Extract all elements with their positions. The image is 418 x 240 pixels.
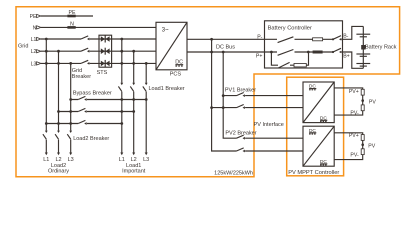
fuse battery P- xyxy=(313,38,323,41)
breaker precharge xyxy=(279,62,290,68)
svg-text:PV MPPT Controller: PV MPPT Controller xyxy=(288,170,339,176)
wire PE xyxy=(41,15,93,17)
DC/DC 1 bottom DC label xyxy=(320,115,328,121)
terminal Load1 L1 xyxy=(120,153,123,156)
wire tap L1 to Load2 xyxy=(45,39,47,153)
breaker PV1 a xyxy=(237,93,245,98)
thyristor pair L1 xyxy=(101,36,110,43)
svg-text:PV-: PV- xyxy=(350,111,359,117)
battery cell 3 xyxy=(356,64,370,67)
svg-text:L3: L3 xyxy=(143,157,149,163)
svg-text:PV Interface: PV Interface xyxy=(254,122,284,128)
breaker Load2 phase2 xyxy=(55,131,60,140)
svg-text:PE: PE xyxy=(69,10,76,16)
svg-text:PV+: PV+ xyxy=(349,133,359,139)
DC/DC 1 top DC label xyxy=(309,84,317,90)
terminal Load1 L3 xyxy=(145,153,148,156)
wire PV string 1 xyxy=(334,88,363,115)
PCS DC side label xyxy=(175,60,183,67)
svg-text:Load1 Breaker: Load1 Breaker xyxy=(149,86,185,92)
thyristor pair L3 xyxy=(101,60,110,67)
svg-text:125kW/225kWh: 125kW/225kWh xyxy=(214,170,253,176)
wire battery P+ row xyxy=(265,51,343,53)
svg-text:Breaker: Breaker xyxy=(72,74,91,80)
breaker PV2 a xyxy=(237,135,245,140)
wire N xyxy=(41,26,156,28)
svg-text:PV1 Breaker: PV1 Breaker xyxy=(225,88,256,94)
wire B+ to battery rack xyxy=(343,52,364,68)
fuse PV string 2 upper xyxy=(361,135,364,141)
svg-text:B+: B+ xyxy=(343,54,350,60)
PE source arrow xyxy=(37,14,41,17)
terminal Load1 L2 xyxy=(132,153,135,156)
N source arrow xyxy=(37,26,41,29)
svg-text:Grid: Grid xyxy=(18,44,28,50)
junction dots Load1 taps xyxy=(120,38,147,65)
svg-text:PCS: PCS xyxy=(170,71,182,77)
fuse PV string 1 lower xyxy=(361,105,364,111)
Battery Controller box xyxy=(265,21,343,68)
svg-text:L3: L3 xyxy=(68,157,74,163)
junction dots DC bus xyxy=(210,38,224,109)
DC/DC converter 2 diagonal xyxy=(303,126,334,166)
svg-text:L1: L1 xyxy=(119,157,125,163)
DC/DC converter 1 box xyxy=(303,82,334,123)
wire bypass row B xyxy=(59,111,134,113)
svg-text:PV+: PV+ xyxy=(349,89,359,95)
breaker bypass row A xyxy=(78,96,86,101)
wire Load1 drop phase2 xyxy=(133,51,135,152)
wire PV string 2 xyxy=(334,133,363,160)
wire L2 xyxy=(41,50,156,52)
breaker Load2 phase3 xyxy=(67,131,72,140)
battery cell 1 xyxy=(356,34,370,37)
breaker Load1 phase3 xyxy=(143,83,148,92)
L3 source arrow xyxy=(37,62,41,65)
terminal Load2 L1 xyxy=(45,153,48,156)
wire bypass row A xyxy=(71,99,147,101)
breaker Load1 phase2 xyxy=(130,83,135,92)
breaker Grid Breaker L3 xyxy=(81,60,89,65)
fuse N link xyxy=(67,26,75,29)
svg-text:Bypass Breaker: Bypass Breaker xyxy=(73,90,112,96)
svg-text:3~: 3~ xyxy=(162,27,169,33)
wire PV feed 1 xyxy=(212,39,303,151)
DC/DC converter 1 diagonal xyxy=(303,82,334,123)
svg-text:PV2 Breaker: PV2 Breaker xyxy=(225,130,256,136)
svg-text:STS: STS xyxy=(97,70,108,76)
contactor battery B- side xyxy=(332,36,341,41)
svg-text:Important: Important xyxy=(122,169,146,175)
svg-text:B-: B- xyxy=(343,33,348,39)
junction dot PV string 2 xyxy=(361,143,364,146)
battery cell 2 xyxy=(356,54,370,56)
L1 source arrow xyxy=(37,37,41,40)
svg-text:PE: PE xyxy=(30,14,37,20)
svg-text:P-: P- xyxy=(257,34,262,40)
L2 source arrow xyxy=(37,50,41,53)
svg-text:N: N xyxy=(33,25,37,31)
PCS converter box xyxy=(156,22,187,70)
svg-text:Battery Controller: Battery Controller xyxy=(268,25,312,31)
wire Load1 drop phase3 xyxy=(145,63,147,152)
fuse PE link xyxy=(67,15,75,18)
junction dots precharge xyxy=(270,51,310,54)
svg-text:L3: L3 xyxy=(31,61,37,67)
svg-text:N: N xyxy=(70,22,74,28)
svg-text:PV: PV xyxy=(368,144,375,150)
svg-text:P+: P+ xyxy=(256,53,263,59)
wire tap L2 to Load2 xyxy=(58,51,60,152)
orange system boundary xyxy=(16,7,400,177)
svg-text:PV-: PV- xyxy=(350,152,359,158)
wire DC bus lower xyxy=(187,51,265,53)
fuse PV string 2 lower xyxy=(361,149,364,155)
wire bypass row C xyxy=(46,123,122,125)
wire battery P- row xyxy=(265,38,343,40)
fuse battery rack xyxy=(361,45,365,50)
svg-text:DC Bus: DC Bus xyxy=(216,45,235,51)
svg-text:L1: L1 xyxy=(31,37,37,43)
breaker battery P- input xyxy=(278,37,294,43)
PCS diagonal xyxy=(156,22,187,70)
wire PV feed 2 xyxy=(223,52,303,138)
wire tap L3 to Load2 xyxy=(70,63,72,152)
wire Load1 drop phase1 xyxy=(121,39,123,153)
breaker Load2 phase1 xyxy=(43,131,48,140)
svg-text:Battery Rack: Battery Rack xyxy=(365,44,397,50)
breaker PV2 b xyxy=(237,148,245,153)
breaker bypass row C xyxy=(78,120,86,125)
svg-text:PV: PV xyxy=(369,100,376,106)
contactor battery B+ side xyxy=(332,48,341,53)
wire B- to battery rack xyxy=(343,26,364,39)
thyristor pair L2 xyxy=(101,48,110,55)
fuse battery P+ xyxy=(313,51,323,54)
wire L1 xyxy=(41,38,156,40)
breaker PV1 b xyxy=(237,105,245,110)
DC/DC 2 top DC label xyxy=(309,128,317,134)
STS box xyxy=(99,35,112,67)
junction dots grid taps xyxy=(45,38,72,65)
DC/DC 2 bottom DC label xyxy=(320,159,328,165)
svg-text:L2: L2 xyxy=(31,49,37,55)
wire PV1 row a xyxy=(223,95,303,97)
junction dots bypass rows xyxy=(45,98,148,125)
svg-text:Grid: Grid xyxy=(72,68,82,74)
svg-text:L1: L1 xyxy=(43,157,49,163)
breaker bypass row B xyxy=(78,108,86,113)
breaker Load1 phase1 xyxy=(118,83,123,92)
DC/DC converter 2 box xyxy=(303,126,334,166)
wire DC bus upper xyxy=(187,38,265,40)
breaker Grid Breaker L1 xyxy=(81,36,89,41)
terminal Load2 L2 xyxy=(57,153,60,156)
breaker battery P+ input xyxy=(278,50,294,56)
svg-text:Load2 Breaker: Load2 Breaker xyxy=(73,136,109,142)
junction dot PV string 1 xyxy=(361,99,364,102)
orange PV MPPT Controller box xyxy=(287,77,344,176)
breaker Grid Breaker L2 xyxy=(81,48,89,53)
wire precharge branch xyxy=(271,52,308,65)
resistor precharge xyxy=(294,64,306,67)
svg-text:Ordinary: Ordinary xyxy=(48,169,69,175)
terminal Load2 L3 xyxy=(69,153,72,156)
wire L3 xyxy=(41,62,156,64)
battery rack stack wire xyxy=(362,26,364,68)
fuse PV string 1 upper xyxy=(361,89,364,95)
wire PV1 row b xyxy=(212,107,303,109)
